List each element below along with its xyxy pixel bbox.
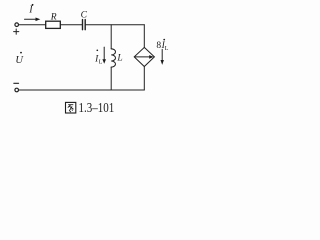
svg-text:1.3–101: 1.3–101: [79, 100, 115, 115]
wire capacitor to right corner: [86, 24, 145, 26]
label IL current: [94, 49, 103, 65]
wire inductor branch top: [110, 25, 112, 49]
current arrow I: [25, 18, 37, 20]
dependent source internal arrow: [135, 56, 150, 58]
current arrow 8IL: [161, 49, 163, 60]
caption figure number: [66, 100, 115, 115]
svg-text:C: C: [81, 10, 88, 20]
wire source bottom to bottom rail: [143, 67, 145, 91]
inductor L coil: [111, 49, 115, 67]
svg-text:L: L: [116, 53, 122, 63]
wire right branch down to source: [143, 25, 145, 48]
label U source voltage: [15, 52, 24, 66]
svg-text:L: L: [165, 46, 169, 52]
current arrow IL: [103, 47, 105, 60]
resistor R1: [46, 21, 61, 28]
arrowhead of current arrow 8IL: [161, 60, 164, 65]
wire resistor to capacitor: [61, 24, 82, 26]
capacitor C plates: [83, 20, 86, 30]
svg-text:I: I: [28, 5, 33, 16]
arrowhead of current arrow I: [36, 18, 41, 22]
minus sign: [14, 82, 19, 84]
label I (current): [28, 4, 33, 16]
wire top from terminal to resistor: [19, 24, 46, 26]
dependent source U1 diamond: [134, 47, 154, 66]
wire inductor bottom: [110, 67, 112, 90]
wire bottom rail: [19, 89, 145, 91]
caption character tu (drawn): [66, 102, 76, 113]
+ sign: [14, 29, 19, 34]
arrowhead of current arrow IL: [102, 59, 106, 64]
node + terminal top-left: [15, 23, 19, 27]
label 8IL controlled source value: [156, 39, 168, 52]
node - terminal bottom-left: [15, 88, 19, 92]
svg-text:R: R: [50, 13, 57, 23]
arrowhead of dependent source internal arrow: [149, 55, 154, 59]
svg-text:L: L: [99, 59, 103, 65]
